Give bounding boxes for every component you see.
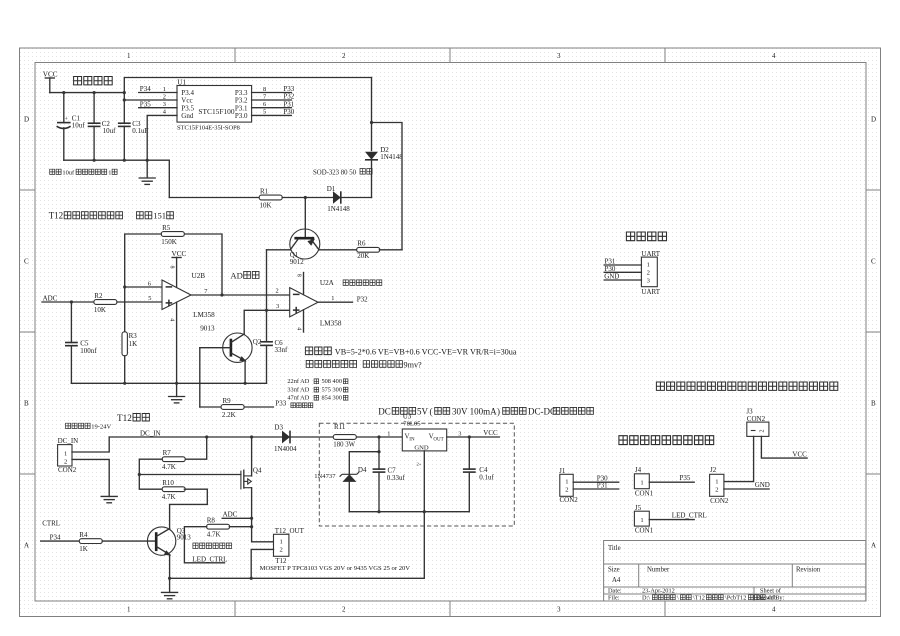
note DC input 5V bbox=[378, 407, 593, 417]
diode D3 1N4004 bbox=[274, 424, 334, 453]
section title T12热电偶电压放大 放大151倍 bbox=[49, 211, 174, 221]
svg-text:T12: T12 bbox=[117, 413, 132, 423]
svg-text:5: 5 bbox=[263, 109, 266, 116]
wire U1 pin4 Gnd to ground bbox=[147, 115, 177, 177]
svg-text:2: 2 bbox=[276, 288, 279, 295]
capacitor C1 bbox=[57, 93, 86, 161]
junction VCC rail C1 bbox=[62, 91, 65, 94]
wire U2B pin6 bbox=[125, 286, 162, 288]
svg-text:.ddb: .ddb bbox=[766, 595, 777, 602]
svg-text:File:: File: bbox=[608, 595, 620, 602]
svg-text:\PcbT12: \PcbT12 bbox=[725, 595, 746, 602]
svg-text:1: 1 bbox=[280, 539, 283, 546]
wire J1 pin2 P31 bbox=[573, 481, 619, 489]
svg-text:U1: U1 bbox=[177, 79, 186, 87]
wire analog ground rail bbox=[71, 382, 266, 384]
svg-text:4.7K: 4.7K bbox=[207, 530, 221, 538]
svg-text:U2A: U2A bbox=[320, 279, 335, 287]
svg-text:P31: P31 bbox=[597, 481, 608, 489]
svg-text:10uf: 10uf bbox=[72, 121, 86, 129]
wire ground rail under capacitors bbox=[64, 160, 170, 197]
svg-text:LM358: LM358 bbox=[193, 311, 215, 319]
capacitor C7 bbox=[373, 437, 406, 512]
junction D4 branch bbox=[377, 450, 380, 453]
svg-text:R8: R8 bbox=[207, 517, 216, 525]
note 连接到按键与显示板 bbox=[619, 436, 714, 445]
wire Q1 collector to C6 node bbox=[267, 249, 291, 251]
junction Q2 emitter rail bbox=[244, 382, 247, 385]
svg-text:LED_CTRL: LED_CTRL bbox=[672, 512, 707, 520]
svg-text:4.7K: 4.7K bbox=[162, 463, 176, 471]
svg-text:1: 1 bbox=[640, 517, 643, 524]
junction C7 top bbox=[377, 435, 380, 438]
wire R10 right to Q3 collector bbox=[170, 489, 208, 528]
wire U1 pin2 Vcc bbox=[124, 99, 177, 101]
ground Q3 bbox=[162, 578, 178, 599]
wire R8 left to LED_CTRL stub bbox=[184, 527, 224, 563]
pin numbers U2B bbox=[148, 280, 208, 302]
note AD values bbox=[287, 378, 342, 401]
note SOD-323 封装 bbox=[313, 169, 372, 177]
junction R5 pin6 bbox=[123, 285, 126, 288]
connector J5 CON1 bbox=[634, 504, 653, 535]
junction DC_IN R7 bbox=[205, 435, 208, 438]
svg-text:9013: 9013 bbox=[200, 325, 215, 333]
svg-text:2: 2 bbox=[342, 52, 346, 60]
svg-text:Revision: Revision bbox=[796, 567, 821, 574]
wire U3 out to VCC bbox=[447, 429, 500, 437]
svg-text:2: 2 bbox=[342, 606, 346, 614]
junction ground rail C2 bbox=[93, 159, 96, 162]
svg-text:0.1uF: 0.1uF bbox=[132, 127, 148, 135]
junction drain ADC bbox=[250, 517, 253, 520]
resistor R2 bbox=[94, 292, 117, 314]
svg-text:CON1: CON1 bbox=[635, 527, 654, 535]
svg-text:1: 1 bbox=[127, 52, 131, 60]
junction drain R8 bbox=[250, 525, 253, 528]
svg-text:P3.0: P3.0 bbox=[235, 112, 248, 120]
svg-text:30V 100mA: 30V 100mA bbox=[452, 407, 497, 417]
junction Q3 emitter bbox=[168, 577, 171, 580]
svg-text:C: C bbox=[24, 258, 29, 266]
svg-text:1K: 1K bbox=[79, 545, 88, 553]
svg-text:1: 1 bbox=[331, 295, 334, 302]
wire Q4 source bbox=[251, 437, 253, 476]
svg-text:R2: R2 bbox=[94, 292, 103, 300]
note 两个10uf电容看条件选择1个 bbox=[50, 169, 117, 176]
svg-text:1: 1 bbox=[640, 479, 643, 486]
connector J3 CON2 bbox=[746, 408, 768, 437]
svg-text:A4: A4 bbox=[612, 577, 621, 584]
wire UART pin3 GND bbox=[604, 272, 641, 280]
svg-text:33nf AD: 33nf AD bbox=[287, 386, 309, 393]
wire R7 left to gate node bbox=[139, 459, 162, 489]
wire J3 pin1 down to J2 bbox=[724, 436, 754, 481]
svg-text:23-Apr-2012: 23-Apr-2012 bbox=[642, 588, 675, 595]
junction rail pin4 bbox=[175, 382, 178, 385]
svg-text:20K: 20K bbox=[357, 252, 369, 260]
wire R11 to U3 bbox=[357, 436, 403, 438]
svg-text:D1: D1 bbox=[327, 185, 336, 193]
svg-text:508 400: 508 400 bbox=[322, 378, 342, 385]
wire T12_OUT pin2 bbox=[251, 549, 273, 578]
connector CON2 DC_IN bbox=[58, 437, 79, 474]
svg-text:P34: P34 bbox=[50, 533, 61, 541]
svg-text:9013: 9013 bbox=[177, 534, 192, 542]
svg-text:D3: D3 bbox=[274, 424, 283, 432]
svg-text:1: 1 bbox=[64, 451, 67, 458]
svg-text:2: 2 bbox=[715, 486, 718, 493]
mosfet Q4 TPC8103 bbox=[241, 467, 262, 490]
svg-text:CON1: CON1 bbox=[635, 489, 654, 497]
svg-text:CON2: CON2 bbox=[710, 497, 729, 505]
note discharge control bbox=[306, 360, 422, 369]
regulator U3 78L05 bbox=[402, 413, 446, 452]
ground DC_IN bbox=[101, 495, 117, 497]
svg-text:R9: R9 bbox=[223, 397, 232, 405]
svg-text:STC15F104E-35I-SOP8: STC15F104E-35I-SOP8 bbox=[177, 124, 240, 131]
wire J2 pin2 GND stub bbox=[724, 481, 770, 489]
wire UART pin2 P30 bbox=[604, 265, 641, 273]
svg-text:P35: P35 bbox=[140, 100, 151, 108]
svg-text:33nf: 33nf bbox=[275, 346, 289, 354]
wire Q2 collector to pin3 node bbox=[244, 310, 290, 334]
svg-text:VCC: VCC bbox=[792, 450, 807, 458]
wire regulator ground rail bbox=[349, 511, 469, 513]
svg-text:2: 2 bbox=[565, 486, 568, 493]
wire ADC to R2 bbox=[42, 295, 94, 303]
svg-text:Sheet of: Sheet of bbox=[760, 588, 782, 595]
svg-text:LED_CTRL: LED_CTRL bbox=[192, 555, 227, 563]
junction D2 branch bbox=[370, 121, 373, 124]
wire R4 to Q3 base bbox=[102, 540, 156, 542]
svg-text:10uf: 10uf bbox=[103, 127, 117, 135]
svg-text:2+: 2+ bbox=[417, 462, 422, 467]
junction feedback output bbox=[220, 293, 223, 296]
wire U2A output P32 bbox=[318, 296, 368, 304]
wire Q2 base to R9 bbox=[199, 348, 201, 407]
junction Vcc pin bbox=[123, 98, 126, 101]
ic U1 STC15F100 bbox=[177, 79, 252, 132]
svg-text:J2: J2 bbox=[710, 466, 717, 474]
svg-text:P34: P34 bbox=[140, 85, 151, 93]
resistor R5 bbox=[161, 224, 184, 246]
svg-text:C: C bbox=[871, 258, 876, 266]
resistor R4 bbox=[79, 531, 102, 553]
svg-text:3: 3 bbox=[458, 430, 461, 437]
svg-text:4: 4 bbox=[772, 52, 776, 60]
junction C6 pin3 bbox=[265, 309, 268, 312]
wire R8 right to drain bbox=[229, 526, 251, 528]
power pin 4 U2B to ground rail bbox=[168, 302, 176, 383]
junction C4 top bbox=[468, 435, 471, 438]
wire ground rail to R1 bbox=[169, 197, 259, 199]
note 跳帽在调试时切断按键与显示板的电源 bbox=[656, 382, 837, 390]
capacitor C4 bbox=[463, 437, 495, 512]
svg-text:6: 6 bbox=[148, 280, 151, 287]
svg-text:1: 1 bbox=[715, 478, 718, 485]
svg-text:1: 1 bbox=[565, 478, 568, 485]
wire Q4 drain to T12_OUT bbox=[252, 488, 275, 542]
svg-text:): ) bbox=[497, 407, 500, 417]
wire CON2 pin2 to ground bbox=[72, 459, 109, 496]
svg-text:SOD-323 80 50: SOD-323 80 50 bbox=[313, 169, 357, 176]
svg-text:D: D bbox=[24, 116, 29, 124]
svg-text:Size: Size bbox=[608, 567, 620, 574]
svg-text:Gnd: Gnd bbox=[181, 112, 194, 120]
connector T12_OUT bbox=[274, 527, 305, 565]
svg-text:5: 5 bbox=[148, 295, 151, 302]
svg-text:P33: P33 bbox=[275, 400, 286, 408]
op-amp U2A LM358 bbox=[290, 279, 342, 327]
svg-text:Q4: Q4 bbox=[253, 467, 262, 475]
svg-text:DC: DC bbox=[378, 407, 391, 417]
svg-text:5V: 5V bbox=[417, 407, 429, 417]
svg-text:UART: UART bbox=[641, 288, 660, 296]
svg-text:150K: 150K bbox=[161, 238, 177, 246]
svg-text:R4: R4 bbox=[79, 531, 88, 539]
resistor R7 bbox=[162, 449, 185, 471]
title block file path bbox=[642, 595, 650, 602]
svg-text:\T12: \T12 bbox=[693, 595, 705, 602]
capacitor C3 bbox=[118, 93, 149, 161]
file path cjk bbox=[653, 595, 778, 602]
svg-text:DC-DC: DC-DC bbox=[528, 407, 556, 417]
svg-text:47nf AD: 47nf AD bbox=[287, 394, 309, 401]
diode D1 1N4148 bbox=[327, 185, 372, 213]
connector J2 CON2 bbox=[710, 466, 729, 505]
wire R5 right to output bbox=[185, 234, 222, 295]
wire Q3 emitter to ground bbox=[169, 555, 171, 579]
power pin 4 U2A stub bbox=[295, 310, 303, 332]
junction DC_IN Q4 bbox=[250, 435, 253, 438]
label AD转换 bbox=[230, 270, 259, 280]
svg-text:R7: R7 bbox=[163, 449, 172, 457]
svg-text:VCC: VCC bbox=[43, 71, 58, 79]
svg-text:R10: R10 bbox=[162, 479, 174, 487]
svg-text:(: ( bbox=[430, 407, 433, 417]
zener D4 1N4737 bbox=[314, 452, 379, 512]
svg-text:OUT: OUT bbox=[433, 437, 443, 442]
power pin 8 U2A stub bbox=[295, 273, 303, 295]
transistor Q1 9012 bbox=[290, 198, 320, 266]
power pin 8 U2B with VCC bbox=[168, 250, 186, 287]
capacitor C2 bbox=[88, 93, 116, 161]
wire R7 right leg bbox=[184, 437, 206, 459]
svg-text:4: 4 bbox=[295, 327, 301, 330]
svg-text:D4: D4 bbox=[358, 466, 367, 474]
svg-text:DC_IN: DC_IN bbox=[140, 429, 161, 437]
wire VCC rail bbox=[50, 92, 125, 94]
wire R5 left to pin6 bbox=[125, 234, 162, 332]
junction VCC rail C3 bbox=[123, 91, 126, 94]
pin numbers U2A bbox=[276, 288, 335, 310]
svg-text:1: 1 bbox=[647, 262, 650, 269]
svg-text:CON2: CON2 bbox=[58, 466, 77, 474]
svg-text:1: 1 bbox=[108, 169, 111, 176]
svg-text:1: 1 bbox=[387, 430, 390, 437]
svg-text:180 3W: 180 3W bbox=[333, 442, 355, 449]
svg-text:GND: GND bbox=[604, 272, 619, 280]
svg-text:CON2: CON2 bbox=[560, 496, 579, 504]
resistor R1 bbox=[259, 187, 282, 209]
wire R1 to D1 bbox=[282, 197, 333, 199]
resistor R6 bbox=[357, 240, 380, 260]
note 加热状态指示 bbox=[193, 543, 232, 549]
resistor R11 bbox=[333, 423, 356, 449]
svg-text:1: 1 bbox=[127, 606, 131, 614]
pin numbers U1 left bbox=[163, 86, 167, 116]
svg-text:Date:: Date: bbox=[608, 588, 622, 595]
svg-text:0.1uf: 0.1uf bbox=[479, 474, 494, 482]
svg-text:2: 2 bbox=[64, 458, 67, 465]
svg-text:78L05: 78L05 bbox=[403, 421, 421, 428]
svg-text:J1: J1 bbox=[559, 467, 566, 475]
svg-text:B: B bbox=[24, 400, 29, 408]
svg-text:8: 8 bbox=[168, 266, 174, 269]
wire J5 pin1 LED_CTRL bbox=[649, 512, 707, 520]
svg-text:T12: T12 bbox=[49, 211, 64, 221]
svg-text:1K: 1K bbox=[129, 340, 138, 348]
wire R2 to U2B pin5 bbox=[117, 301, 162, 303]
capacitor C5 bbox=[65, 302, 97, 383]
connector J1 CON2 bbox=[559, 467, 578, 504]
wire UART pin1 P31 bbox=[604, 258, 641, 266]
transistor Q3 9013 bbox=[147, 527, 191, 556]
resistor R8 bbox=[207, 517, 230, 539]
U3 gnd pin mark bbox=[417, 462, 422, 467]
wire J3 pin2 to VCC bbox=[761, 436, 807, 458]
svg-text:1N4148: 1N4148 bbox=[380, 153, 403, 161]
svg-text:2: 2 bbox=[647, 270, 650, 277]
svg-text:575 300: 575 300 bbox=[322, 386, 342, 393]
svg-text:9mv?: 9mv? bbox=[404, 361, 423, 370]
connector UART bbox=[641, 250, 660, 296]
junction R1 Q1 base bbox=[304, 196, 307, 199]
svg-text:AD: AD bbox=[230, 270, 242, 280]
wire J4 pin1 P35 bbox=[649, 474, 694, 482]
svg-text:T12: T12 bbox=[275, 557, 287, 565]
svg-text:J4: J4 bbox=[635, 466, 642, 474]
svg-text:D:\: D:\ bbox=[642, 595, 650, 602]
junction ADC C5 bbox=[70, 300, 73, 303]
junction reg rail C7 bbox=[377, 510, 380, 513]
title block text bbox=[608, 545, 821, 584]
svg-text:Number: Number bbox=[647, 567, 670, 574]
svg-text:ADC: ADC bbox=[223, 511, 238, 519]
svg-text:CTRL: CTRL bbox=[42, 519, 60, 527]
wire Q2 emitter to ground rail bbox=[244, 361, 246, 384]
svg-text:VB=5-2*0.6 VE=VB+0.6 VCC-VE=VR: VB=5-2*0.6 VE=VB+0.6 VCC-VE=VR VR/R=i=30… bbox=[335, 348, 517, 357]
wire J1 pin1 P30 bbox=[573, 474, 619, 482]
note MOSFET types bbox=[260, 565, 411, 572]
svg-text:\: \ bbox=[677, 595, 679, 602]
svg-text:D: D bbox=[871, 116, 876, 124]
svg-text:22nf AD: 22nf AD bbox=[287, 378, 309, 385]
label 电压比较输出 bbox=[343, 280, 382, 286]
svg-text:P30: P30 bbox=[283, 108, 294, 116]
svg-text:2.2K: 2.2K bbox=[222, 411, 236, 419]
svg-text:U3: U3 bbox=[403, 413, 412, 421]
wire U1 pin3 P35 stub bbox=[139, 100, 177, 108]
svg-text:4.7K: 4.7K bbox=[162, 493, 176, 501]
section title T12驱动 bbox=[117, 413, 149, 423]
svg-text:Title: Title bbox=[608, 545, 621, 552]
svg-text:A: A bbox=[24, 542, 29, 550]
svg-text:GND: GND bbox=[414, 444, 429, 451]
svg-text:10uf: 10uf bbox=[62, 169, 75, 176]
capacitor C6 bbox=[260, 250, 288, 383]
junction rail R3 bbox=[123, 382, 126, 385]
ground analog rail bbox=[169, 383, 185, 403]
svg-text:9012: 9012 bbox=[290, 258, 305, 266]
svg-text:8: 8 bbox=[295, 274, 301, 277]
wire R6 to D2 branch bbox=[379, 249, 402, 251]
svg-text:P32: P32 bbox=[357, 296, 368, 304]
svg-text:R5: R5 bbox=[162, 224, 171, 232]
wire VCC top to D2 bbox=[124, 78, 371, 93]
svg-text:STC15F100: STC15F100 bbox=[198, 107, 234, 116]
svg-text:4: 4 bbox=[168, 318, 174, 321]
wire U3 GND down bbox=[423, 451, 425, 512]
svg-text:LM358: LM358 bbox=[320, 319, 342, 327]
svg-text:3: 3 bbox=[557, 52, 561, 60]
svg-text:A: A bbox=[871, 542, 876, 550]
svg-text:0.33uf: 0.33uf bbox=[387, 474, 406, 482]
junction reg rail gnd bbox=[423, 510, 426, 513]
svg-text:R6: R6 bbox=[357, 240, 366, 248]
pin numbers U1 right bbox=[263, 86, 267, 116]
diode D2 1N4148 bbox=[365, 78, 403, 198]
wire U1 pin6 P31 stub bbox=[252, 100, 295, 108]
resistor R9 bbox=[221, 397, 244, 419]
resistor R10 bbox=[162, 479, 185, 501]
svg-text:R11: R11 bbox=[334, 423, 346, 431]
junction VCC rail C2 bbox=[93, 91, 96, 94]
svg-text:10K: 10K bbox=[260, 202, 272, 210]
wire Q1 emitter to R6 bbox=[319, 249, 357, 251]
svg-text:2: 2 bbox=[280, 547, 283, 554]
svg-text:3: 3 bbox=[557, 606, 561, 614]
wire CON2 pin1 to DC_IN bbox=[72, 437, 109, 452]
note 输入电压19-24V bbox=[66, 423, 112, 430]
resistor R3 bbox=[122, 332, 137, 384]
power symbol VCC bbox=[43, 71, 58, 93]
wire ADC stub bbox=[222, 511, 251, 519]
svg-text:VCC: VCC bbox=[483, 429, 498, 437]
svg-text:4: 4 bbox=[772, 606, 776, 614]
label LED_CTRL bbox=[192, 555, 227, 563]
svg-text:P35: P35 bbox=[680, 474, 691, 482]
svg-text:U2B: U2B bbox=[192, 272, 206, 280]
wire U1 pin5 P30 stub bbox=[252, 108, 295, 116]
wire D2 to R6 branch bbox=[372, 123, 403, 250]
svg-text:GND: GND bbox=[755, 481, 770, 489]
wire gate bbox=[139, 474, 241, 476]
wire CTRL P34 to R4 bbox=[41, 519, 80, 541]
pin numbers U3 bbox=[387, 430, 461, 437]
wire U2B output to U2A pin2 bbox=[191, 294, 290, 296]
title block bbox=[604, 541, 866, 602]
note constant current formula bbox=[305, 347, 516, 357]
svg-text:854 300: 854 300 bbox=[322, 394, 342, 401]
svg-text:IN: IN bbox=[409, 437, 415, 442]
note AD values cjk bbox=[314, 379, 348, 400]
svg-text:DC_IN: DC_IN bbox=[58, 437, 79, 445]
junction ground rail C3 bbox=[123, 159, 126, 162]
svg-text:MOSFET P TPC8103 VGS 20V or 94: MOSFET P TPC8103 VGS 20V or 9435 VGS 25 … bbox=[260, 565, 411, 572]
svg-text:1N4148: 1N4148 bbox=[327, 205, 350, 213]
